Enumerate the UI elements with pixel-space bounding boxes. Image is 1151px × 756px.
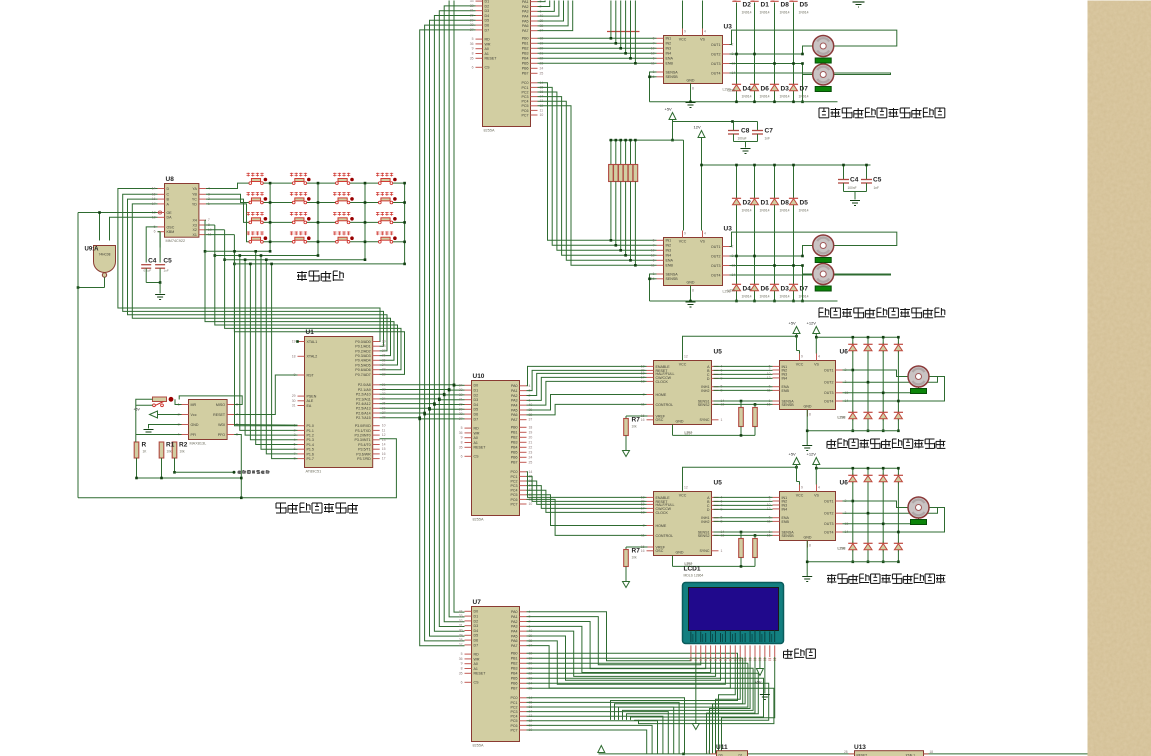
svg-text:MAX813L: MAX813L xyxy=(190,442,207,446)
svg-text:39: 39 xyxy=(382,340,386,344)
svg-text:10: 10 xyxy=(540,113,544,117)
svg-text:OUT3: OUT3 xyxy=(711,264,721,268)
svg-text:PC3: PC3 xyxy=(511,710,518,714)
svg-text:VS: VS xyxy=(700,38,705,42)
svg-text:9: 9 xyxy=(461,662,463,666)
svg-text:+12V: +12V xyxy=(807,452,817,457)
svg-text:VCC: VCC xyxy=(796,363,804,367)
svg-text:D4: D4 xyxy=(474,403,479,407)
svg-text:A1: A1 xyxy=(474,441,478,445)
svg-text:INH2: INH2 xyxy=(701,389,709,393)
svg-text:CONTROL: CONTROL xyxy=(656,403,674,407)
svg-text:C4: C4 xyxy=(850,177,859,184)
svg-text:1N914: 1N914 xyxy=(799,209,809,213)
svg-text:OUT1: OUT1 xyxy=(824,499,834,503)
svg-text:1N914: 1N914 xyxy=(760,209,770,213)
svg-text:C5: C5 xyxy=(163,258,172,265)
svg-text:D7: D7 xyxy=(474,643,479,647)
svg-text:D3: D3 xyxy=(781,286,790,293)
svg-text:U7: U7 xyxy=(473,599,482,606)
svg-text:D3: D3 xyxy=(781,86,790,93)
svg-text:P0.0/AD0: P0.0/AD0 xyxy=(355,340,370,344)
svg-text:HOME: HOME xyxy=(656,393,667,397)
svg-text:Vcc: Vcc xyxy=(191,413,197,417)
svg-text:35: 35 xyxy=(459,671,463,675)
svg-text:15: 15 xyxy=(382,447,386,451)
svg-text:XTAL1: XTAL1 xyxy=(307,340,318,344)
svg-text:D4: D4 xyxy=(743,86,752,93)
svg-text:D0: D0 xyxy=(474,610,479,614)
svg-text:+5V: +5V xyxy=(789,452,797,457)
svg-text:P2.1/A9: P2.1/A9 xyxy=(358,388,371,392)
svg-text:10k: 10k xyxy=(632,556,638,560)
svg-text:4: 4 xyxy=(704,30,706,34)
svg-text:36: 36 xyxy=(459,657,463,661)
svg-text:CS: CS xyxy=(485,66,491,70)
svg-text:35: 35 xyxy=(382,358,386,362)
svg-text:36: 36 xyxy=(459,431,463,435)
svg-text:PA4: PA4 xyxy=(511,630,518,634)
svg-text:RESET: RESET xyxy=(485,57,498,61)
svg-text:28: 28 xyxy=(382,416,386,420)
svg-text:PC5: PC5 xyxy=(511,719,518,723)
svg-text:1N914: 1N914 xyxy=(742,295,752,299)
svg-text:D4: D4 xyxy=(474,629,479,633)
svg-text:28: 28 xyxy=(459,638,463,642)
svg-text:P3.0/RXD: P3.0/RXD xyxy=(355,424,371,428)
svg-text:PC7: PC7 xyxy=(522,113,529,117)
svg-text:P1.4: P1.4 xyxy=(307,443,314,447)
svg-text:5: 5 xyxy=(461,652,463,656)
svg-text:U11: U11 xyxy=(716,744,728,751)
svg-text:33: 33 xyxy=(459,388,463,392)
svg-text:16: 16 xyxy=(641,418,645,422)
svg-text:PA1: PA1 xyxy=(511,389,518,393)
svg-text:P3.3/INT1: P3.3/INT1 xyxy=(355,438,371,442)
svg-text:P1.0: P1.0 xyxy=(307,424,314,428)
svg-text:29: 29 xyxy=(292,394,296,398)
svg-text:23: 23 xyxy=(529,450,533,454)
svg-text:PB4: PB4 xyxy=(511,446,518,450)
svg-text:P0.2/AD2: P0.2/AD2 xyxy=(355,349,370,353)
svg-text:PB6: PB6 xyxy=(522,67,529,71)
svg-text:IN1: IN1 xyxy=(666,239,672,243)
svg-text:P2.2/A10: P2.2/A10 xyxy=(356,393,371,397)
svg-text:PA2: PA2 xyxy=(511,394,518,398)
svg-text:P1.7: P1.7 xyxy=(307,457,314,461)
svg-text:P3.6/WR: P3.6/WR xyxy=(356,452,371,456)
svg-text:R2: R2 xyxy=(179,442,188,449)
svg-text:23: 23 xyxy=(382,392,386,396)
svg-text:9: 9 xyxy=(801,486,803,490)
svg-text:PB1: PB1 xyxy=(511,431,518,435)
svg-text:28: 28 xyxy=(470,23,474,27)
svg-text:GND: GND xyxy=(687,281,695,285)
svg-text:D3: D3 xyxy=(485,9,490,13)
svg-text:P2.6/A14: P2.6/A14 xyxy=(356,411,371,415)
svg-text:31: 31 xyxy=(459,624,463,628)
svg-text:D2: D2 xyxy=(743,2,752,9)
svg-text:21: 21 xyxy=(382,383,386,387)
svg-text:1N914: 1N914 xyxy=(799,95,809,99)
svg-text:30: 30 xyxy=(459,403,463,407)
svg-text:ENA: ENA xyxy=(666,259,674,263)
svg-text:30: 30 xyxy=(292,399,296,403)
svg-text:27: 27 xyxy=(459,643,463,647)
svg-text:C: C xyxy=(167,193,170,197)
svg-text:PB2: PB2 xyxy=(522,47,529,51)
svg-text:P2.3/A11: P2.3/A11 xyxy=(356,397,371,401)
svg-text:1N914: 1N914 xyxy=(780,95,790,99)
svg-text:P2.5/A13: P2.5/A13 xyxy=(356,407,371,411)
svg-text:6: 6 xyxy=(653,258,655,262)
svg-text:C5: C5 xyxy=(873,177,882,184)
svg-text:RESET: RESET xyxy=(474,672,487,676)
svg-text:PB5: PB5 xyxy=(511,451,518,455)
svg-text:8: 8 xyxy=(692,87,694,91)
svg-text:EA: EA xyxy=(307,404,312,408)
svg-text:PA5: PA5 xyxy=(511,634,518,638)
svg-text:9: 9 xyxy=(801,355,803,359)
svg-text:9: 9 xyxy=(684,232,686,236)
svg-text:OUT1: OUT1 xyxy=(711,245,721,249)
svg-text:36: 36 xyxy=(382,354,386,358)
svg-text:8: 8 xyxy=(809,544,811,548)
svg-text:C4: C4 xyxy=(148,258,157,265)
svg-text:PB0: PB0 xyxy=(522,37,529,41)
svg-text:IN1: IN1 xyxy=(666,37,672,41)
svg-text:5: 5 xyxy=(653,36,655,40)
svg-text:D: D xyxy=(167,187,170,191)
svg-text:D2: D2 xyxy=(474,393,479,397)
svg-text:D5: D5 xyxy=(474,634,479,638)
svg-text:D: D xyxy=(707,508,710,512)
svg-text:34: 34 xyxy=(382,363,386,367)
svg-text:A0: A0 xyxy=(474,662,478,666)
svg-text:PSEN: PSEN xyxy=(307,395,317,399)
svg-text:PB1: PB1 xyxy=(522,42,529,46)
svg-text:1N914: 1N914 xyxy=(780,11,790,15)
svg-text:14: 14 xyxy=(152,187,156,191)
svg-text:SENS2: SENS2 xyxy=(698,534,710,538)
svg-text:PA7: PA7 xyxy=(522,29,529,33)
svg-text:U6: U6 xyxy=(840,480,849,487)
svg-text:PA3: PA3 xyxy=(511,625,518,629)
svg-text:A0: A0 xyxy=(485,47,489,51)
svg-text:+5V: +5V xyxy=(665,107,673,112)
svg-text:R7: R7 xyxy=(632,417,641,424)
svg-text:10k: 10k xyxy=(167,450,173,454)
svg-text:PFO: PFO xyxy=(218,433,226,437)
svg-text:20: 20 xyxy=(529,435,533,439)
svg-text:PA6: PA6 xyxy=(522,24,529,28)
svg-text:P0.3/AD3: P0.3/AD3 xyxy=(355,354,370,358)
svg-text:PC6: PC6 xyxy=(511,498,518,502)
svg-text:6: 6 xyxy=(461,454,463,458)
svg-text:MDLS 12864: MDLS 12864 xyxy=(684,574,704,578)
svg-text:PB7: PB7 xyxy=(522,72,529,76)
svg-text:PA0: PA0 xyxy=(511,610,518,614)
svg-text:VCC: VCC xyxy=(679,38,687,42)
svg-text:D1: D1 xyxy=(474,389,479,393)
svg-text:32: 32 xyxy=(459,393,463,397)
svg-text:5: 5 xyxy=(472,37,474,41)
svg-text:PC6: PC6 xyxy=(511,724,518,728)
svg-text:SENSB: SENSB xyxy=(666,277,679,281)
svg-text:36: 36 xyxy=(470,42,474,46)
svg-text:10: 10 xyxy=(651,46,655,50)
svg-text:A0: A0 xyxy=(474,436,478,440)
svg-text:11: 11 xyxy=(651,61,655,65)
svg-text:VCC: VCC xyxy=(679,494,687,498)
svg-text:CLOCK: CLOCK xyxy=(656,511,669,515)
svg-text:MISO: MISO xyxy=(216,403,225,407)
svg-text:27: 27 xyxy=(382,411,386,415)
svg-text:PB0: PB0 xyxy=(511,426,518,430)
svg-text:PB7: PB7 xyxy=(511,461,518,465)
svg-text:10: 10 xyxy=(382,424,386,428)
svg-text:35: 35 xyxy=(459,445,463,449)
svg-text:PA0: PA0 xyxy=(511,384,518,388)
svg-text:GND: GND xyxy=(804,405,812,409)
svg-text:SENS2: SENS2 xyxy=(698,403,710,407)
svg-text:P0.7/AD7: P0.7/AD7 xyxy=(355,373,370,377)
svg-text:25: 25 xyxy=(382,402,386,406)
svg-text:U5: U5 xyxy=(714,349,723,356)
svg-text:PC3: PC3 xyxy=(511,484,518,488)
svg-text:9: 9 xyxy=(472,47,474,51)
svg-text:+12V: +12V xyxy=(807,321,817,326)
svg-text:26: 26 xyxy=(382,406,386,410)
svg-text:1nF: 1nF xyxy=(765,137,771,141)
svg-text:PA6: PA6 xyxy=(511,413,518,417)
svg-text:1N914: 1N914 xyxy=(780,295,790,299)
svg-text:GND: GND xyxy=(676,420,684,424)
svg-text:100uF: 100uF xyxy=(738,137,747,141)
svg-text:P1.1: P1.1 xyxy=(307,429,314,433)
svg-text:21: 21 xyxy=(529,440,533,444)
svg-text:D6: D6 xyxy=(474,413,479,417)
svg-text:P1.3: P1.3 xyxy=(307,438,314,442)
svg-text:RESET: RESET xyxy=(213,413,226,417)
svg-text:OUT4: OUT4 xyxy=(711,273,721,277)
svg-text:U10: U10 xyxy=(473,373,485,380)
svg-text:PB2: PB2 xyxy=(511,436,518,440)
svg-text:1N914: 1N914 xyxy=(760,11,770,15)
svg-text:25: 25 xyxy=(529,460,533,464)
svg-text:PC5: PC5 xyxy=(522,104,529,108)
svg-text:PB5: PB5 xyxy=(511,677,518,681)
svg-text:8255A: 8255A xyxy=(473,744,484,748)
svg-text:16: 16 xyxy=(641,549,645,553)
svg-text:IN4: IN4 xyxy=(666,254,672,258)
svg-text:74HC08: 74HC08 xyxy=(99,253,111,257)
svg-text:OSC: OSC xyxy=(656,549,664,553)
svg-text:P0.4/AD4: P0.4/AD4 xyxy=(355,359,370,363)
svg-text:D: D xyxy=(707,377,710,381)
svg-text:PC1: PC1 xyxy=(522,86,529,90)
svg-text:28: 28 xyxy=(844,750,848,754)
svg-text:P3.5/T1: P3.5/T1 xyxy=(358,448,371,452)
svg-text:ENB: ENB xyxy=(666,264,674,268)
svg-text:32: 32 xyxy=(382,372,386,376)
svg-text:PC3: PC3 xyxy=(522,95,529,99)
svg-text:PA3: PA3 xyxy=(522,10,529,14)
svg-text:30: 30 xyxy=(470,14,474,18)
svg-text:D8: D8 xyxy=(781,2,790,9)
svg-text:12: 12 xyxy=(651,51,655,55)
svg-text:SENSB: SENSB xyxy=(782,403,795,407)
svg-text:AT89C51: AT89C51 xyxy=(306,470,322,474)
svg-text:OUT1: OUT1 xyxy=(824,368,834,372)
svg-text:12: 12 xyxy=(684,486,688,490)
svg-text:D1: D1 xyxy=(761,200,770,207)
svg-text:D2: D2 xyxy=(743,200,752,207)
svg-text:X1: X1 xyxy=(192,233,196,237)
svg-text:D3: D3 xyxy=(474,624,479,628)
svg-text:10k: 10k xyxy=(632,425,638,429)
svg-text:X4: X4 xyxy=(192,219,196,223)
svg-text:CONTROL: CONTROL xyxy=(656,534,674,538)
svg-text:P1.6: P1.6 xyxy=(307,452,314,456)
svg-text:IN4: IN4 xyxy=(782,376,788,380)
svg-text:OUT4: OUT4 xyxy=(824,530,834,534)
svg-text:5: 5 xyxy=(653,238,655,242)
svg-text:PA6: PA6 xyxy=(511,639,518,643)
svg-text:GND: GND xyxy=(804,536,812,540)
svg-text:ENB: ENB xyxy=(666,62,674,66)
svg-text:19: 19 xyxy=(529,430,533,434)
svg-text:1N914: 1N914 xyxy=(799,11,809,15)
svg-text:38: 38 xyxy=(382,344,386,348)
svg-text:D5: D5 xyxy=(485,19,490,23)
svg-text:PB3: PB3 xyxy=(511,667,518,671)
svg-text:18: 18 xyxy=(529,425,533,429)
svg-text:PB5: PB5 xyxy=(522,62,529,66)
svg-text:WR: WR xyxy=(474,657,480,661)
svg-text:12: 12 xyxy=(382,433,386,437)
svg-text:25: 25 xyxy=(540,71,544,75)
svg-text:PA1: PA1 xyxy=(522,0,529,4)
svg-text:IN2: IN2 xyxy=(666,42,672,46)
svg-text:OUT3: OUT3 xyxy=(824,522,834,526)
svg-text:10k: 10k xyxy=(180,450,186,454)
svg-text:PB7: PB7 xyxy=(511,687,518,691)
svg-text:OUT3: OUT3 xyxy=(711,62,721,66)
svg-text:33: 33 xyxy=(382,368,386,372)
svg-text:VS: VS xyxy=(814,494,819,498)
svg-text:18: 18 xyxy=(930,750,934,754)
svg-text:INH2: INH2 xyxy=(701,520,709,524)
svg-text:PB0: PB0 xyxy=(511,652,518,656)
svg-text:D6: D6 xyxy=(761,286,770,293)
svg-text:D4: D4 xyxy=(485,14,490,18)
svg-text:17: 17 xyxy=(152,202,156,206)
svg-text:OUT1: OUT1 xyxy=(711,43,721,47)
svg-text:U1: U1 xyxy=(306,329,315,336)
svg-text:27: 27 xyxy=(470,28,474,32)
svg-text:1N914: 1N914 xyxy=(760,295,770,299)
svg-text:MR: MR xyxy=(191,403,197,407)
svg-text:VS: VS xyxy=(700,240,705,244)
svg-text:+5V: +5V xyxy=(755,681,762,685)
svg-text:LCD1: LCD1 xyxy=(684,566,701,573)
svg-text:7: 7 xyxy=(653,243,655,247)
svg-text:OUT2: OUT2 xyxy=(711,254,721,258)
svg-text:+5V: +5V xyxy=(789,321,797,326)
svg-text:PA3: PA3 xyxy=(511,399,518,403)
svg-text:1N914: 1N914 xyxy=(760,95,770,99)
svg-text:12V: 12V xyxy=(694,125,701,130)
svg-text:L298: L298 xyxy=(838,547,846,551)
svg-text:R1: R1 xyxy=(166,442,175,449)
svg-text:1nF: 1nF xyxy=(874,186,880,190)
svg-text:37: 37 xyxy=(382,349,386,353)
svg-text:5: 5 xyxy=(461,426,463,430)
svg-text:1: 1 xyxy=(721,549,723,553)
svg-text:1N914: 1N914 xyxy=(742,11,752,15)
svg-text:L296: L296 xyxy=(728,289,736,293)
svg-text:31: 31 xyxy=(292,404,296,408)
svg-text:1uF: 1uF xyxy=(164,269,169,273)
svg-text:31: 31 xyxy=(459,398,463,402)
svg-text:1N914: 1N914 xyxy=(742,209,752,213)
svg-text:ENB: ENB xyxy=(782,520,790,524)
svg-text:4: 4 xyxy=(818,355,820,359)
svg-text:PC2: PC2 xyxy=(511,705,518,709)
svg-text:D6: D6 xyxy=(474,639,479,643)
svg-text:8: 8 xyxy=(809,413,811,417)
svg-text:1N914: 1N914 xyxy=(742,95,752,99)
svg-text:D5: D5 xyxy=(474,408,479,412)
svg-text:PA7: PA7 xyxy=(511,644,518,648)
svg-text:P0.1/AD1: P0.1/AD1 xyxy=(355,345,370,349)
svg-text:RD: RD xyxy=(474,427,480,431)
svg-text:31: 31 xyxy=(470,9,474,13)
svg-text:32: 32 xyxy=(470,4,474,8)
svg-text:10: 10 xyxy=(651,248,655,252)
svg-text:PC1: PC1 xyxy=(511,475,518,479)
svg-text:RD: RD xyxy=(485,38,491,42)
svg-text:8255A: 8255A xyxy=(484,129,495,133)
svg-text:ENA: ENA xyxy=(666,57,674,61)
svg-text:D7: D7 xyxy=(800,286,809,293)
svg-text:YC: YC xyxy=(192,198,197,202)
svg-text:IN4: IN4 xyxy=(666,52,672,56)
svg-text:U3: U3 xyxy=(724,226,733,233)
svg-text:SYNC: SYNC xyxy=(700,418,710,422)
svg-text:SYNC: SYNC xyxy=(700,549,710,553)
svg-text:D4: D4 xyxy=(743,286,752,293)
svg-text:RD: RD xyxy=(474,653,480,657)
svg-text:D7: D7 xyxy=(485,28,490,32)
svg-text:L298: L298 xyxy=(728,89,736,93)
svg-text:P2.4/A12: P2.4/A12 xyxy=(356,402,371,406)
svg-text:R: R xyxy=(142,442,147,449)
svg-text:24: 24 xyxy=(382,397,386,401)
svg-text:GND: GND xyxy=(191,423,199,427)
svg-text:RESET: RESET xyxy=(474,446,487,450)
svg-text:29: 29 xyxy=(459,407,463,411)
svg-text:1N914: 1N914 xyxy=(780,209,790,213)
svg-text:SENSA: SENSA xyxy=(666,272,679,276)
svg-text:D1: D1 xyxy=(485,0,490,3)
svg-text:OUT2: OUT2 xyxy=(824,512,834,516)
svg-text:L298: L298 xyxy=(838,416,846,420)
svg-text:IN3: IN3 xyxy=(666,249,672,253)
svg-text:24: 24 xyxy=(540,66,544,70)
svg-text:PA7: PA7 xyxy=(511,418,518,422)
